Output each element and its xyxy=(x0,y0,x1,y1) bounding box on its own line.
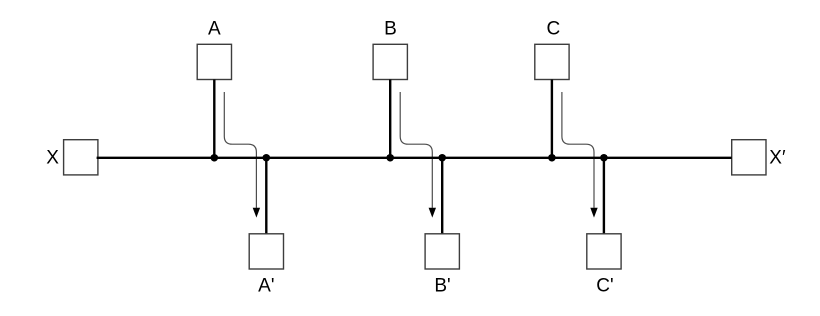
wire bus to C' xyxy=(603,158,605,234)
signal flow curve A to A' xyxy=(224,92,256,208)
svg-text:X′: X′ xyxy=(769,148,786,169)
svg-text:A: A xyxy=(208,19,221,40)
junction dot C (redraw on top) xyxy=(548,154,555,161)
wire A drop to bus xyxy=(213,80,215,158)
wire bus to A' xyxy=(265,158,267,234)
svg-text:B': B' xyxy=(434,275,450,296)
signal flow curve C to C' xyxy=(562,92,594,208)
svg-text:B: B xyxy=(384,19,397,40)
arrowhead A' xyxy=(253,208,260,218)
junction dot C xyxy=(548,154,555,161)
junction dot B xyxy=(387,154,394,161)
wire B drop to bus xyxy=(389,80,391,158)
junction dot A' xyxy=(263,154,270,161)
box B' xyxy=(425,234,459,269)
box B xyxy=(373,44,407,79)
box C' xyxy=(587,234,621,269)
wire C drop to bus xyxy=(551,80,553,158)
junction dot A xyxy=(211,154,218,161)
arrowhead B' xyxy=(429,208,436,218)
box A' xyxy=(249,234,283,269)
box A xyxy=(197,44,231,79)
signal flow curve B to B' xyxy=(400,92,432,208)
junction dot B' (redraw on top) xyxy=(439,154,446,161)
junction dot A (redraw on top) xyxy=(211,154,218,161)
arrowhead C' xyxy=(590,208,597,218)
junction dot A' (redraw on top) xyxy=(263,154,270,161)
svg-text:A': A' xyxy=(258,275,274,296)
bus line X to X' xyxy=(97,157,732,159)
junction dot C' xyxy=(600,154,607,161)
box X xyxy=(64,140,98,175)
junction dot B (redraw on top) xyxy=(387,154,394,161)
junction dot C' (redraw on top) xyxy=(600,154,607,161)
box X' xyxy=(732,140,766,175)
junction dot B' xyxy=(439,154,446,161)
svg-text:X: X xyxy=(46,148,59,169)
svg-text:C': C' xyxy=(596,275,613,296)
box C xyxy=(535,44,569,79)
svg-text:C: C xyxy=(547,19,561,40)
wire bus to B' xyxy=(441,158,443,234)
